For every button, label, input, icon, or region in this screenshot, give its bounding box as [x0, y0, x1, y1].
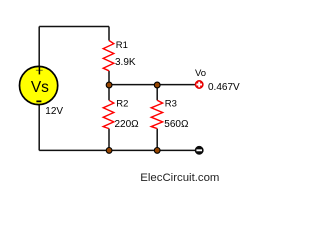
- svg-text:Vo: Vo: [195, 68, 206, 79]
- wire: R3 top lead: [156, 85, 158, 101]
- resistor R3: [151, 100, 162, 128]
- voltage source Vs: [19, 66, 57, 104]
- negative output terminal: [195, 146, 203, 154]
- Vo positive output terminal: [195, 80, 203, 88]
- svg-text:220Ω: 220Ω: [115, 119, 140, 130]
- svg-text:12V: 12V: [45, 106, 63, 117]
- svg-text:R1: R1: [116, 40, 128, 51]
- svg-text:0.467V: 0.467V: [208, 82, 240, 93]
- wire: bottom horizontal to negative terminal: [39, 149, 195, 151]
- svg-text:R3: R3: [165, 99, 177, 110]
- svg-text:R2: R2: [116, 99, 128, 110]
- svg-text:560Ω: 560Ω: [164, 119, 189, 130]
- node A junction dot (R1/R2/output node): [106, 82, 112, 88]
- wire: R1 bottom lead to node A: [108, 71, 110, 85]
- resistor R1: [103, 41, 114, 71]
- wire: Vs bottom lead: [38, 105, 40, 151]
- wire: R1 top lead: [108, 27, 110, 41]
- resistor R2: [103, 100, 114, 128]
- wire: R2 top lead: [108, 85, 110, 101]
- node C junction dot (R2 bottom): [106, 148, 112, 154]
- wire: R2 bottom lead: [108, 129, 110, 151]
- node B junction dot (R3 top): [154, 82, 160, 88]
- wire: top horizontal from Vs column to R1 column: [39, 26, 109, 28]
- svg-text:Vs: Vs: [31, 79, 49, 96]
- node D junction dot (R3 bottom): [154, 148, 160, 154]
- svg-text:3.9K: 3.9K: [115, 57, 136, 68]
- svg-text:ElecCircuit.com: ElecCircuit.com: [140, 172, 219, 184]
- wire: middle horizontal from node A to Vo terminal: [109, 84, 195, 86]
- wire: left vertical from top corner down to Vs + terminal: [38, 27, 40, 67]
- wire: R3 bottom lead: [156, 129, 158, 151]
